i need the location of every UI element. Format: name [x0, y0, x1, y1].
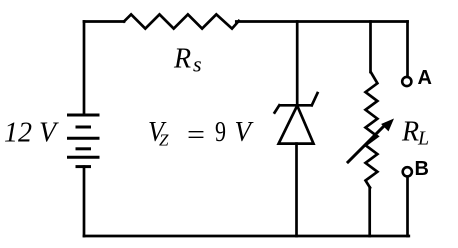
svg-text:=: = — [187, 120, 205, 151]
wire zener bottom lead — [295, 144, 298, 236]
wire bottom horizontal — [84, 235, 409, 238]
terminal B circle — [403, 167, 412, 176]
svg-text:V: V — [235, 117, 254, 148]
wire B terminal vertical — [406, 177, 409, 236]
svg-text:A: A — [418, 67, 432, 89]
wire zener top lead — [296, 22, 299, 106]
terminal A circle — [402, 77, 411, 86]
variable resistor RL zigzag — [366, 73, 378, 188]
svg-text:B: B — [415, 158, 429, 180]
wire top-right horizontal segment — [236, 20, 407, 23]
battery 12V plate long 3 — [69, 156, 99, 159]
wire RL top lead — [369, 22, 372, 73]
variable resistor RL arrowhead — [381, 119, 394, 132]
svg-text:12 V: 12 V — [4, 117, 59, 148]
resistor Rs zigzag — [124, 14, 239, 28]
zener diode DZ left wing — [275, 105, 280, 112]
svg-text:9: 9 — [215, 117, 226, 148]
zener diode DZ cathode bar — [281, 104, 311, 107]
svg-text:Z: Z — [159, 130, 169, 149]
wire left vertical lower (battery bottom lead) — [83, 167, 86, 236]
svg-text:R: R — [401, 117, 419, 148]
battery 12V plate short 1 — [77, 126, 90, 129]
svg-text:s: s — [193, 51, 202, 76]
wire left vertical upper (battery top lead) — [83, 22, 86, 116]
battery 12V plate short 3 — [77, 165, 90, 168]
svg-text:R: R — [173, 43, 191, 74]
svg-text:L: L — [417, 128, 429, 150]
battery 12V plate short 2 — [77, 147, 90, 150]
battery 12V plate long 2 — [69, 137, 99, 140]
wire RL bottom lead — [368, 188, 371, 236]
wire top-left horizontal segment — [84, 20, 124, 23]
zener diode DZ right wing — [312, 93, 318, 105]
battery 12V plate long 1 — [69, 114, 99, 117]
zener diode DZ triangle — [279, 106, 314, 144]
wire A terminal vertical — [406, 22, 409, 77]
variable resistor RL arrow shaft — [348, 124, 386, 162]
